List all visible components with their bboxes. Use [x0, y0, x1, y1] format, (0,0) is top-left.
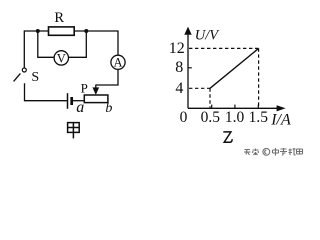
svg-text:a: a	[76, 99, 84, 116]
wire lower-left (switch to battery)	[25, 83, 67, 101]
svg-text:0.5: 0.5	[201, 109, 221, 126]
dashed line I=1.5	[258, 48, 260, 107]
label yi (乙)	[223, 132, 232, 142]
graph x-axis	[188, 105, 286, 111]
wire top (node from switch to ammeter via R)	[24, 30, 118, 32]
label P	[81, 80, 88, 95]
tick y 8	[188, 67, 192, 69]
svg-text:1.0: 1.0	[225, 109, 245, 126]
label 12	[169, 40, 185, 57]
svg-text:A: A	[113, 56, 122, 70]
label 0	[180, 109, 188, 126]
dashed line U=4	[189, 87, 210, 89]
svg-text:U/V: U/V	[195, 27, 221, 43]
svg-text:12: 12	[169, 40, 185, 57]
wire voltmeter branch left	[38, 31, 54, 57]
wire battery to rheostat	[73, 100, 85, 102]
label I/A	[270, 112, 291, 129]
junction right	[84, 29, 88, 33]
wire right vertical (top to ammeter)	[117, 30, 119, 55]
svg-text:b: b	[105, 101, 112, 116]
svg-text:V: V	[57, 51, 66, 65]
svg-text:1.5: 1.5	[249, 109, 269, 126]
svg-text:P: P	[81, 80, 88, 95]
label 1.5	[249, 109, 269, 126]
rheostat slider arrow	[93, 85, 100, 95]
label 4	[175, 80, 183, 97]
wire ammeter to slider	[96, 69, 118, 85]
graph y-axis	[184, 27, 191, 109]
label jia (甲)	[68, 123, 80, 139]
label S	[31, 70, 39, 85]
svg-text:I/A: I/A	[270, 112, 291, 129]
dashed line U=12	[189, 47, 259, 49]
U-I line	[210, 48, 259, 88]
tick x 0.5	[211, 105, 213, 109]
label U/V	[195, 27, 221, 43]
svg-text:4: 4	[175, 80, 183, 97]
dashed line I=0.5	[209, 88, 211, 107]
wire left vertical (top node to switch)	[23, 30, 25, 67]
wire voltmeter branch right	[68, 31, 86, 57]
svg-text:0: 0	[180, 109, 188, 126]
svg-text:8: 8	[175, 59, 183, 76]
ammeter A	[111, 55, 125, 69]
switch S	[14, 68, 27, 81]
tick x 1.5	[257, 105, 259, 109]
watermark 头条@中学试题	[244, 148, 303, 156]
label R	[54, 10, 64, 26]
resistor R	[49, 27, 75, 35]
label 0.5	[201, 109, 221, 126]
label b	[105, 101, 112, 116]
label 8	[175, 59, 183, 76]
label 1.0	[225, 109, 245, 126]
svg-text:R: R	[54, 10, 64, 26]
svg-text:S: S	[31, 70, 39, 85]
label a	[76, 99, 84, 116]
battery	[68, 93, 72, 109]
junction left	[36, 29, 40, 33]
tick x 1.0	[234, 105, 236, 109]
voltmeter V	[54, 51, 68, 66]
rheostat P (box)	[84, 95, 108, 103]
